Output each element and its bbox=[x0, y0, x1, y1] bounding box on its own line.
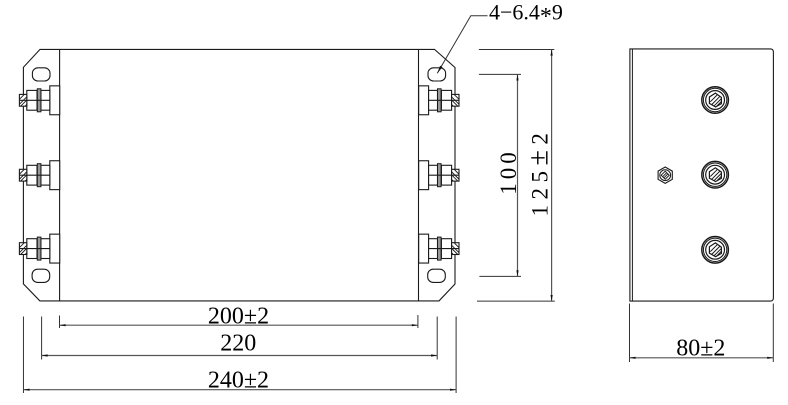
mounting hole bottom-right bbox=[428, 269, 446, 282]
terminal stud left top bbox=[19, 86, 59, 115]
body left edge bbox=[59, 49, 61, 301]
svg-text:200±2: 200±2 bbox=[208, 303, 269, 329]
leader line to hole, label 4-6.4*9 bbox=[437, 0, 563, 73]
terminal stud top (top view) bbox=[702, 87, 729, 114]
svg-text:100: 100 bbox=[496, 148, 521, 195]
terminal stud middle (top view) bbox=[702, 161, 729, 188]
extension line 80 right bbox=[772, 304, 774, 363]
extension line 220 right bbox=[436, 317, 438, 360]
extension line 240 right bbox=[455, 317, 457, 394]
svg-text:240±2: 240±2 bbox=[208, 367, 269, 393]
earth stud small (top view) bbox=[658, 167, 672, 183]
extension line 220 left bbox=[41, 317, 43, 360]
body right edge bbox=[418, 49, 420, 301]
dimension line 80±2 bbox=[630, 357, 774, 359]
svg-text:80±2: 80±2 bbox=[676, 335, 725, 361]
terminal stud left bottom bbox=[19, 234, 59, 263]
terminal stud left middle bbox=[19, 161, 59, 190]
extension line 240 left bbox=[22, 317, 24, 394]
filter body outline with corner flanges bbox=[23, 49, 455, 301]
terminal stud right top bbox=[419, 86, 459, 115]
extension line 200 right bbox=[417, 315, 419, 328]
mounting hole top-left bbox=[32, 68, 50, 81]
extension line 100 bottom bbox=[479, 275, 521, 277]
dimension line 100 bbox=[517, 74, 519, 276]
side view outline bbox=[630, 49, 774, 301]
svg-text:220: 220 bbox=[220, 331, 256, 357]
dimension line 200±2 bbox=[60, 324, 418, 326]
terminal stud bottom (top view) bbox=[702, 237, 729, 264]
svg-text:125±2: 125±2 bbox=[524, 128, 555, 217]
extension line 200 left bbox=[59, 316, 61, 329]
extension line 100 top bbox=[479, 73, 521, 75]
svg-text:4−6.4*9: 4−6.4*9 bbox=[489, 0, 563, 30]
dimension line 240±2 bbox=[23, 389, 456, 391]
mounting hole top-right bbox=[428, 68, 446, 81]
extension line 125 bottom bbox=[477, 300, 555, 302]
terminal stud right middle bbox=[419, 161, 459, 190]
terminal stud right bottom bbox=[419, 234, 459, 263]
dimension line 125±2 bbox=[551, 50, 553, 302]
mounting hole bottom-left bbox=[32, 269, 50, 282]
side view inner left edge bbox=[631, 49, 633, 301]
extension line 125 top bbox=[479, 49, 554, 51]
dimension line 220 bbox=[42, 355, 438, 357]
extension line 80 left bbox=[629, 304, 631, 363]
